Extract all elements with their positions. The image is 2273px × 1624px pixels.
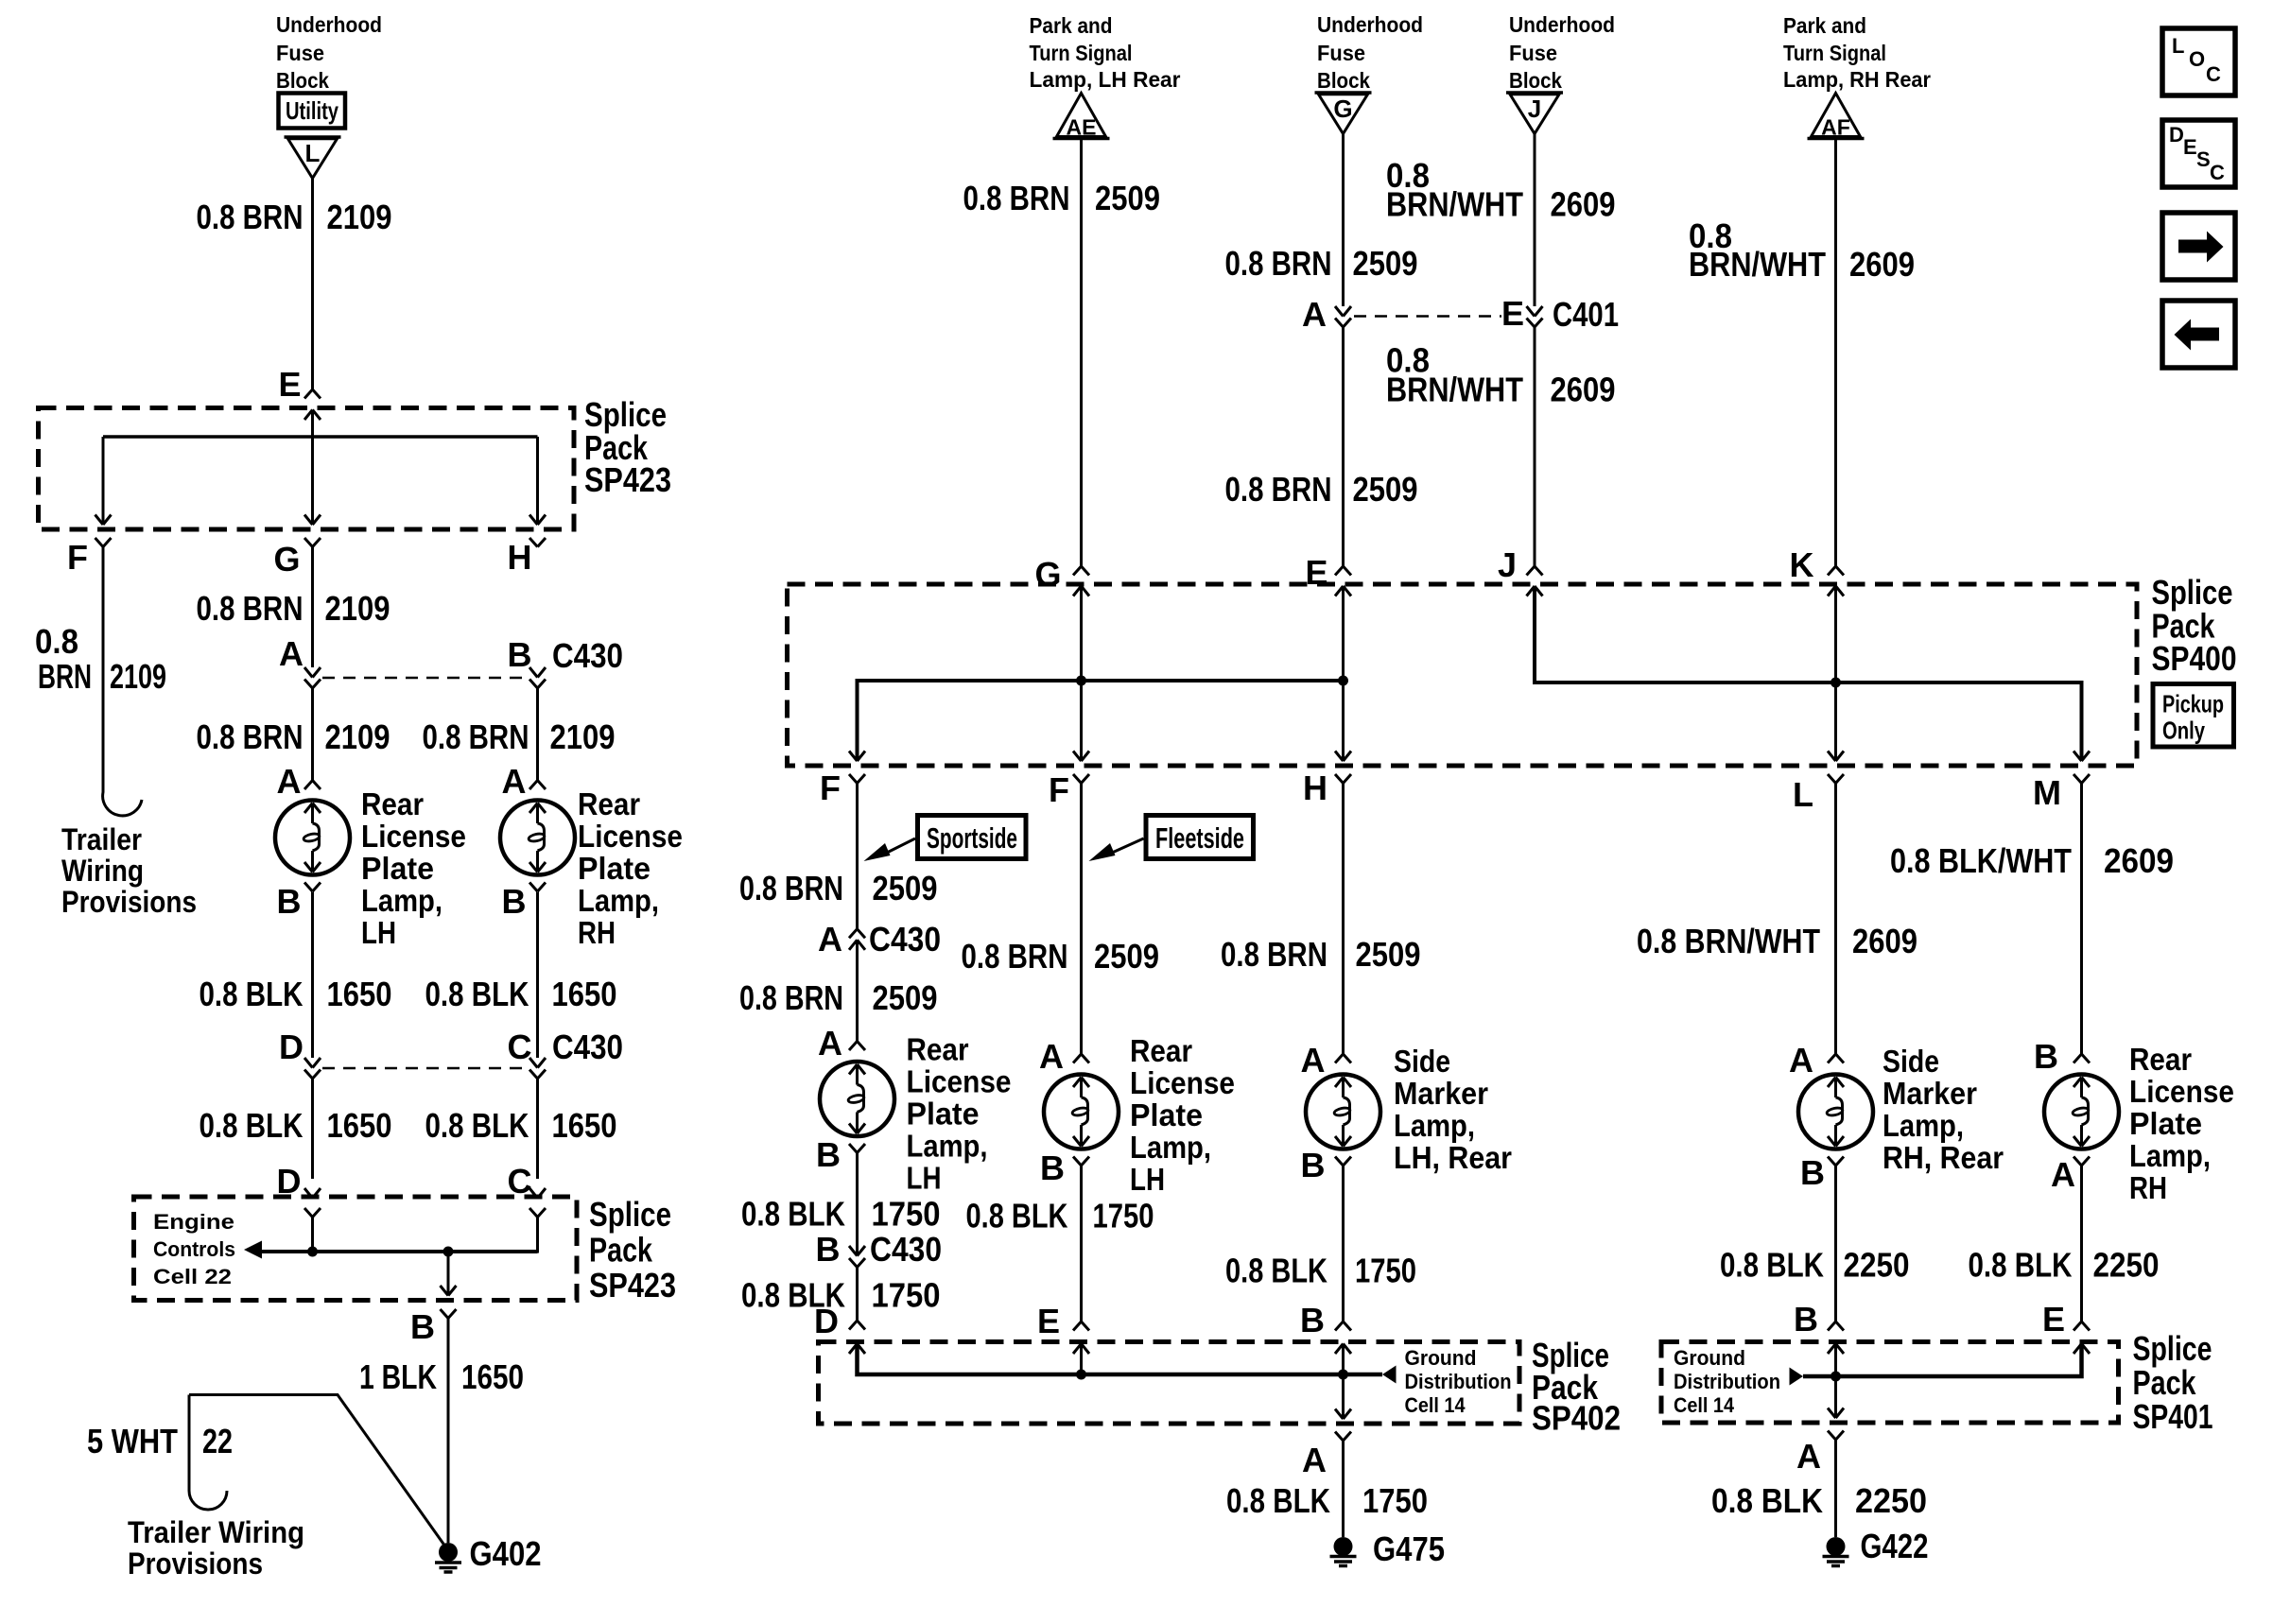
svg-text:Ground: Ground: [1674, 1346, 1745, 1370]
svg-text:A: A: [1302, 295, 1327, 334]
svg-text:A: A: [818, 1024, 842, 1063]
svg-text:Lamp,: Lamp,: [1883, 1108, 1964, 1143]
svg-text:AF: AF: [1821, 115, 1850, 140]
sportside callout box: [918, 816, 1027, 859]
svg-text:G: G: [273, 540, 300, 579]
svg-text:0.8 BRN/WHT: 0.8 BRN/WHT: [1637, 922, 1820, 960]
wire L to splice pack SP423 (0.8 BRN 2109): [311, 178, 314, 389]
arrow to ground distribution (SP402): [1382, 1366, 1397, 1384]
svg-text:AE: AE: [1067, 115, 1097, 140]
node H below SP423: [508, 538, 532, 577]
pin A of rear license plate lamp RH (left): [502, 762, 527, 801]
wire sportside lamp B to C430 (0.8 BLK 1750): [856, 1153, 859, 1256]
svg-text:Underhood: Underhood: [1509, 12, 1615, 37]
svg-text:BRN/WHT: BRN/WHT: [1386, 185, 1523, 224]
pin B of side marker lamp RH rear: [1800, 1153, 1825, 1192]
junction dot SP401-B: [1831, 1372, 1841, 1382]
svg-text:0.8 BLK: 0.8 BLK: [966, 1197, 1068, 1235]
splice pack SP401 dashed box: [1661, 1342, 2119, 1424]
node B into SP402: [1300, 1301, 1325, 1339]
SP402 internal bus wire: [858, 1344, 1383, 1375]
svg-text:Plate: Plate: [361, 851, 434, 886]
node L below SP400: [1793, 775, 1813, 814]
junction dot SP402-B: [1338, 1370, 1348, 1380]
legend box arrow right: [2162, 213, 2235, 280]
svg-text:Cell 14: Cell 14: [1674, 1393, 1735, 1417]
node C into SP423 lower: [508, 1162, 532, 1201]
svg-text:Block: Block: [1509, 68, 1562, 93]
svg-text:1750: 1750: [1093, 1197, 1154, 1235]
svg-text:G422: G422: [1861, 1527, 1929, 1565]
svg-text:SP401: SP401: [2133, 1397, 2213, 1436]
svg-text:Block: Block: [1317, 68, 1370, 93]
svg-text:LH: LH: [1130, 1162, 1165, 1197]
splice pack SP400 dashed box: [788, 584, 2138, 766]
svg-text:Cell 14: Cell 14: [1405, 1393, 1466, 1417]
svg-text:License: License: [578, 819, 683, 854]
inline connector C401 dashed line: [1335, 306, 1351, 317]
wire lamp LH B to connector C430 row2 (0.8 BLK 1650): [311, 892, 314, 1059]
rear license plate lamp RH name: [2129, 1042, 2234, 1205]
svg-text:License: License: [907, 1064, 1012, 1099]
rear license plate lamp LH (left) name: [361, 786, 466, 950]
pin A of rear license plate lamp LH (fleetside): [1039, 1037, 1064, 1076]
node E into SP400: [1305, 553, 1327, 592]
svg-text:K: K: [1790, 545, 1814, 584]
svg-text:SP402: SP402: [1532, 1399, 1621, 1438]
ground G475: [1334, 1537, 1353, 1556]
pin A at sportside C430: [818, 920, 941, 959]
svg-text:5 WHT: 5 WHT: [87, 1422, 178, 1460]
SP402 entry arrows: [849, 1344, 865, 1355]
junction dot bus1-E: [1338, 676, 1348, 686]
engine controls cell 22 label: [153, 1210, 235, 1288]
wire fleetside lamp B to SP402 (0.8 BLK 1750): [1080, 1166, 1083, 1322]
fuse block connector triangle G: [1315, 91, 1372, 95]
ground distribution cell 14 label (SP401): [1674, 1346, 1780, 1417]
node J into SP400: [1498, 545, 1517, 584]
fleetside callout arrow: [1110, 838, 1144, 854]
svg-text:0.8 BLK: 0.8 BLK: [1226, 1481, 1330, 1520]
inline connector C430 sportside: [849, 929, 865, 939]
svg-text:B: B: [502, 882, 527, 921]
underhood fuse block label (G): [1317, 12, 1423, 93]
node D into SP402: [814, 1302, 839, 1340]
svg-text:Rear: Rear: [578, 786, 640, 821]
svg-text:L: L: [2172, 34, 2184, 58]
wire J to SP400 (0.8 BRN/WHT 2609): [1534, 327, 1536, 566]
svg-text:1 BLK: 1 BLK: [359, 1357, 437, 1396]
svg-text:Rear: Rear: [361, 786, 424, 821]
svg-text:B: B: [2034, 1037, 2058, 1076]
node E into SP401: [2042, 1300, 2065, 1339]
svg-text:2609: 2609: [1551, 185, 1616, 224]
node E into SP402: [1037, 1302, 1060, 1340]
svg-text:E: E: [1501, 294, 1524, 333]
svg-text:1650: 1650: [552, 975, 617, 1013]
svg-text:A: A: [1796, 1437, 1821, 1476]
svg-text:A: A: [277, 762, 302, 801]
svg-text:2250: 2250: [1855, 1481, 1927, 1520]
svg-text:BRN: BRN: [38, 657, 92, 696]
svg-text:Splice: Splice: [2133, 1329, 2212, 1368]
svg-text:C430: C430: [552, 1028, 623, 1066]
svg-text:Ground: Ground: [1405, 1346, 1477, 1370]
node G below SP423: [273, 540, 300, 579]
rear license plate lamp LH (fleetside) bulb: [1044, 1075, 1119, 1149]
pin B of rear license plate lamp RH: [2034, 1037, 2058, 1076]
svg-text:Only: Only: [2162, 717, 2205, 745]
svg-text:B: B: [508, 635, 532, 674]
svg-text:B: B: [1040, 1149, 1065, 1187]
svg-text:Distribution: Distribution: [1405, 1370, 1512, 1393]
svg-text:Turn Signal: Turn Signal: [1030, 41, 1133, 65]
pin D at C430 row2: [279, 1028, 304, 1066]
pin B of side marker lamp LH rear: [1301, 1146, 1326, 1184]
svg-text:0.8 BLK/WHT: 0.8 BLK/WHT: [1890, 841, 2072, 880]
svg-text:Wiring: Wiring: [61, 854, 144, 888]
svg-text:Lamp,: Lamp,: [2129, 1138, 2211, 1173]
SP401 exit arrow A: [1828, 1408, 1844, 1419]
SP402 exit arrow A: [1335, 1409, 1351, 1420]
side marker lamp LH rear name: [1394, 1044, 1512, 1175]
svg-text:Pack: Pack: [589, 1231, 653, 1270]
wire label 0.8 BRN 2109 (F): [35, 622, 166, 696]
pickup only box: [2153, 684, 2234, 748]
svg-text:F: F: [67, 538, 88, 577]
rear license plate lamp RH (left) bulb: [500, 801, 575, 875]
svg-text:Block: Block: [276, 68, 329, 93]
pin E at C401 and label C401: [1501, 294, 1619, 334]
svg-text:0.8 BRN: 0.8 BRN: [739, 978, 843, 1017]
svg-text:Pack: Pack: [2133, 1363, 2197, 1402]
svg-text:1750: 1750: [1355, 1252, 1416, 1290]
svg-text:LH: LH: [907, 1161, 942, 1196]
svg-text:2509: 2509: [873, 869, 938, 907]
svg-text:O: O: [2189, 47, 2205, 71]
wire AF to SP400 (0.8 BRN/WHT 2609): [1834, 139, 1837, 567]
svg-text:0.8: 0.8: [35, 622, 78, 661]
Utility box: [279, 94, 346, 129]
svg-text:E: E: [1037, 1302, 1060, 1340]
fuse block connector triangle L: [285, 135, 341, 139]
pin B at sportside C430 lower: [816, 1230, 943, 1269]
wire H to side marker lamp (0.8 BRN 2509): [1342, 784, 1345, 1055]
svg-text:C430: C430: [870, 1230, 942, 1269]
svg-text:Trailer Wiring: Trailer Wiring: [128, 1515, 304, 1549]
svg-text:BRN/WHT: BRN/WHT: [1689, 245, 1826, 284]
svg-text:0.8 BRN: 0.8 BRN: [423, 717, 529, 756]
arrow from ground distribution (SP401): [1790, 1368, 1804, 1386]
svg-text:Marker: Marker: [1883, 1076, 1977, 1111]
junction dot bus2-K: [1831, 678, 1841, 688]
svg-text:Park and: Park and: [1030, 13, 1113, 38]
svg-text:2509: 2509: [873, 978, 938, 1017]
wire G to SP400 (0.8 BRN 2509): [1342, 327, 1345, 566]
svg-text:Rear: Rear: [1130, 1033, 1192, 1068]
svg-text:Fuse: Fuse: [1509, 41, 1557, 65]
wire sportside C430 to lamp (0.8 BRN 2509): [856, 940, 859, 1041]
rear license plate lamp LH (sportside) bulb: [820, 1062, 894, 1136]
node F below SP400 (fleetside): [1049, 770, 1069, 809]
svg-text:A: A: [1302, 1441, 1327, 1479]
side marker lamp RH rear name: [1883, 1044, 2004, 1175]
svg-text:License: License: [1130, 1065, 1235, 1100]
svg-text:1650: 1650: [552, 1106, 617, 1145]
svg-text:G475: G475: [1373, 1529, 1445, 1568]
wire F sportside to C430 (0.8 BRN 2509): [856, 784, 859, 929]
svg-text:Cell 22: Cell 22: [153, 1265, 232, 1288]
svg-text:H: H: [1303, 769, 1327, 807]
rear license plate lamp RH (left) name: [578, 786, 683, 950]
svg-text:Side: Side: [1394, 1044, 1450, 1079]
svg-text:Fuse: Fuse: [276, 41, 324, 65]
svg-text:Underhood: Underhood: [276, 12, 382, 37]
trailer wiring provisions stub wire (5 WHT 22): [189, 1395, 445, 1547]
underhood fuse block label (J): [1509, 12, 1615, 93]
svg-text:Lamp,: Lamp,: [1130, 1130, 1211, 1165]
svg-text:SP400: SP400: [2152, 639, 2237, 678]
svg-text:1750: 1750: [1362, 1481, 1428, 1520]
SP400 internal bus wire 1: [858, 681, 1344, 761]
arrow to engine controls: [244, 1241, 262, 1259]
SP401 entry arrows: [1828, 1344, 1844, 1355]
node F below SP400 (sportside): [820, 769, 841, 807]
svg-text:A: A: [1789, 1041, 1813, 1080]
svg-text:E: E: [2042, 1300, 2065, 1339]
splice pack SP400 label: [2152, 573, 2237, 678]
trailer wiring provisions label (upper): [61, 822, 197, 919]
legend box DESC: [2162, 120, 2235, 187]
svg-text:2609: 2609: [1551, 371, 1616, 409]
svg-text:C401: C401: [1553, 295, 1619, 334]
svg-text:Turn Signal: Turn Signal: [1783, 41, 1886, 65]
wire G column above connector C430 (0.8 BRN 2109): [311, 547, 314, 668]
svg-text:Utility: Utility: [286, 96, 338, 125]
svg-text:J: J: [1528, 95, 1541, 123]
svg-text:2109: 2109: [325, 717, 390, 756]
svg-text:Controls: Controls: [153, 1237, 235, 1261]
node M below SP400: [2033, 773, 2061, 812]
svg-text:Marker: Marker: [1394, 1076, 1488, 1111]
ground distribution cell 14 label (SP402): [1405, 1346, 1512, 1417]
wire F trailer provisions 0.8 BRN 2109: [103, 547, 142, 816]
inline connector C430 row2 dashed line: [304, 1058, 321, 1068]
node D into SP423 lower: [277, 1162, 302, 1201]
svg-text:Provisions: Provisions: [61, 885, 197, 919]
pin B of rear license plate lamp RH (left): [502, 882, 527, 921]
svg-text:0.8 BRN: 0.8 BRN: [197, 717, 304, 756]
svg-text:2250: 2250: [2093, 1246, 2160, 1285]
svg-text:C430: C430: [869, 920, 941, 959]
svg-text:1750: 1750: [872, 1276, 941, 1315]
svg-text:C: C: [508, 1028, 532, 1066]
legend box LOC: [2162, 28, 2235, 95]
node E into SP423: [278, 365, 301, 404]
svg-text:L: L: [305, 139, 321, 167]
side marker lamp LH rear bulb: [1306, 1075, 1380, 1149]
svg-text:B: B: [1301, 1146, 1326, 1184]
svg-text:0.8 BRN: 0.8 BRN: [1221, 935, 1327, 974]
wire M to rear license RH lamp (0.8 BLK/WHT 2609): [2080, 784, 2083, 1055]
SP423 exit arrows F G H: [95, 515, 112, 526]
svg-text:F: F: [820, 769, 841, 807]
svg-text:Lamp,: Lamp,: [361, 883, 442, 918]
junction dot B-drop: [443, 1247, 454, 1257]
SP423 lower exit arrow B: [447, 1252, 450, 1296]
SP400 exit arrows: [849, 752, 865, 762]
svg-text:Plate: Plate: [578, 851, 651, 886]
svg-text:Lamp, LH Rear: Lamp, LH Rear: [1030, 67, 1181, 92]
wire rear license RH A to SP401 (0.8 BLK 2250): [2080, 1166, 2083, 1322]
SP400 entry arrows: [1073, 586, 1089, 596]
svg-text:Fuse: Fuse: [1317, 41, 1365, 65]
svg-text:D: D: [2169, 123, 2184, 147]
SP423 lower internal bus wire: [304, 1208, 321, 1218]
wire side marker LH B to SP402 (0.8 BLK 1750): [1342, 1166, 1345, 1322]
svg-text:G: G: [1333, 95, 1352, 123]
svg-text:1750: 1750: [872, 1195, 941, 1234]
svg-text:C: C: [2206, 62, 2221, 86]
pin B of rear license plate lamp LH (fleetside): [1040, 1149, 1065, 1187]
svg-text:Rear: Rear: [907, 1032, 969, 1067]
node B below SP423 lower: [410, 1307, 435, 1346]
svg-text:Plate: Plate: [2129, 1106, 2202, 1141]
SP423 entry arrow at E: [304, 410, 321, 421]
node F below SP423: [67, 538, 88, 577]
svg-text:A: A: [279, 634, 304, 673]
rear license plate lamp RH bulb: [2044, 1075, 2119, 1149]
svg-text:2509: 2509: [1095, 179, 1160, 217]
svg-text:Trailer: Trailer: [61, 822, 142, 856]
wire J to connector C401 (0.8 BRN/WHT 2609): [1534, 134, 1536, 307]
fuse block connector triangle J: [1506, 91, 1563, 95]
svg-text:2109: 2109: [325, 589, 390, 628]
junction dot SP402-E: [1076, 1370, 1086, 1380]
underhood fuse block label (left): [276, 12, 382, 93]
junction dot bus1-AE: [1076, 676, 1086, 686]
svg-text:A: A: [1039, 1037, 1064, 1076]
svg-text:2109: 2109: [550, 717, 616, 756]
svg-text:2509: 2509: [1353, 244, 1418, 283]
svg-text:1650: 1650: [327, 1106, 392, 1145]
node B into SP401: [1794, 1300, 1818, 1339]
pin A of rear license plate lamp LH (left): [277, 762, 302, 801]
svg-text:B: B: [1300, 1301, 1325, 1339]
svg-text:A: A: [2051, 1155, 2075, 1194]
svg-text:0.8 BRN: 0.8 BRN: [963, 179, 1070, 217]
wire side marker RH B to SP401 (0.8 BLK 2250): [1834, 1166, 1837, 1322]
svg-text:22: 22: [202, 1422, 233, 1460]
node H below SP400: [1303, 769, 1327, 807]
trailer wiring provisions label (lower): [128, 1515, 304, 1581]
wire D column to SP423 lower (0.8 BLK 1650): [311, 1079, 314, 1179]
splice pack SP402 label: [1532, 1336, 1621, 1438]
wire F fleetside to lamp (0.8 BRN 2509): [1080, 784, 1083, 1055]
park and turn signal lamp RH rear label: [1783, 13, 1931, 92]
wire sportside to SP402 (0.8 BLK 1750): [856, 1268, 859, 1322]
svg-text:2250: 2250: [1844, 1246, 1910, 1285]
wire L to side marker RH lamp (0.8 BRN/WHT 2609): [1834, 784, 1837, 1055]
svg-text:1650: 1650: [461, 1357, 524, 1396]
svg-text:B: B: [1800, 1153, 1825, 1192]
svg-text:2609: 2609: [1852, 922, 1917, 960]
wire G column to rear license lamp LH (0.8 BRN 2109): [311, 688, 314, 781]
side marker lamp RH rear bulb: [1798, 1075, 1873, 1149]
svg-text:0.8 BLK: 0.8 BLK: [1969, 1246, 2073, 1285]
svg-text:0.8 BLK: 0.8 BLK: [200, 975, 304, 1013]
pin A of rear license plate lamp LH (sportside): [818, 1024, 842, 1063]
svg-text:Pickup: Pickup: [2162, 690, 2224, 718]
SP423 internal bus wire: [103, 435, 538, 439]
svg-text:License: License: [2129, 1074, 2234, 1109]
svg-text:License: License: [361, 819, 466, 854]
svg-text:0.8 BLK: 0.8 BLK: [425, 975, 529, 1013]
svg-text:2609: 2609: [2104, 841, 2174, 880]
svg-text:0.8 BRN: 0.8 BRN: [739, 869, 843, 907]
pin B of rear license plate lamp LH (left): [277, 882, 302, 921]
svg-text:RH: RH: [578, 915, 616, 950]
splice pack SP423 lower label: [589, 1195, 676, 1304]
svg-text:Lamp,: Lamp,: [1394, 1108, 1475, 1143]
svg-text:LH, Rear: LH, Rear: [1394, 1140, 1512, 1175]
svg-text:2609: 2609: [1849, 245, 1915, 284]
splice pack SP402 dashed box: [819, 1342, 1520, 1425]
inline connector C430 dashed line: [304, 667, 321, 678]
pin C at C430 row2 and label C430: [508, 1028, 624, 1066]
svg-text:E: E: [2183, 135, 2197, 159]
svg-text:Rear: Rear: [2129, 1042, 2192, 1077]
wire C column to SP423 lower (0.8 BLK 1650): [536, 1079, 539, 1179]
wire B to ground G402 (1 BLK 1650): [447, 1319, 450, 1544]
svg-text:Lamp,: Lamp,: [907, 1129, 988, 1164]
ground G402: [439, 1543, 458, 1562]
node A below SP401: [1796, 1437, 1821, 1476]
svg-text:F: F: [1049, 770, 1069, 809]
splice pack SP401 label: [2133, 1329, 2213, 1436]
splice pack SP423 dashed box: [39, 408, 575, 530]
svg-text:A: A: [502, 762, 527, 801]
svg-text:0.8 BRN: 0.8 BRN: [197, 198, 304, 236]
junction dot D-bus: [307, 1247, 318, 1257]
svg-text:G402: G402: [470, 1534, 542, 1573]
svg-text:SP423: SP423: [589, 1266, 676, 1304]
svg-text:BRN/WHT: BRN/WHT: [1386, 371, 1523, 409]
svg-text:D: D: [814, 1302, 839, 1340]
wire A to ground G422 (0.8 BLK 2250): [1834, 1440, 1837, 1537]
wire A to ground G475 (0.8 BLK 1750): [1342, 1441, 1345, 1537]
splice pack SP423 label: [584, 395, 671, 499]
svg-text:RH: RH: [2129, 1170, 2167, 1205]
svg-text:0.8 BLK: 0.8 BLK: [1711, 1481, 1823, 1520]
pin A of side marker lamp LH rear: [1301, 1041, 1326, 1080]
svg-text:G: G: [1034, 555, 1061, 594]
svg-text:C: C: [2210, 161, 2225, 184]
sportside callout arrow: [885, 838, 915, 854]
svg-text:E: E: [278, 365, 301, 404]
svg-text:0.8 BLK: 0.8 BLK: [425, 1106, 529, 1145]
pin A of side marker lamp RH rear: [1789, 1041, 1813, 1080]
svg-text:Distribution: Distribution: [1674, 1370, 1780, 1393]
rear license plate lamp LH (sportside) name: [907, 1032, 1012, 1196]
ground G422: [1827, 1537, 1846, 1556]
svg-text:B: B: [816, 1135, 841, 1174]
wire G to connector C401 (0.8 BRN 2509): [1342, 134, 1345, 307]
svg-text:2109: 2109: [327, 198, 392, 236]
svg-text:H: H: [508, 538, 532, 577]
svg-text:Plate: Plate: [1130, 1097, 1203, 1132]
node A below SP402: [1302, 1441, 1327, 1479]
